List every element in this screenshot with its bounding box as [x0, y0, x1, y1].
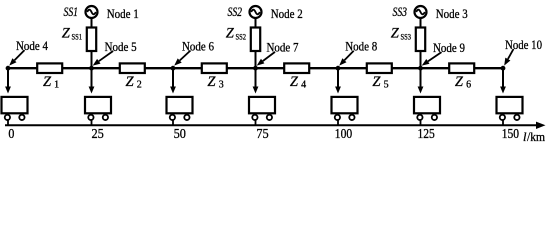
load (train) at node 5	[85, 97, 111, 120]
svg-text:4: 4	[301, 80, 306, 91]
svg-text:50: 50	[174, 126, 186, 141]
load (train) at node 10	[497, 97, 523, 120]
AC source SS3	[415, 6, 427, 18]
node 6 (junction dot)	[171, 66, 176, 71]
wire: source to impedance	[91, 18, 93, 29]
resistor Z4 (series impedance)	[284, 63, 309, 73]
AC source SS2	[250, 6, 262, 18]
resistor Z_SS3 (substation impedance)	[416, 28, 425, 52]
svg-text:3: 3	[219, 80, 224, 91]
svg-text:SS3: SS3	[393, 5, 408, 19]
arrow pointing to node 8	[339, 51, 354, 66]
wire: node 9 down to load	[420, 68, 422, 87]
value label Z2	[126, 74, 142, 91]
svg-text:Z: Z	[62, 25, 71, 41]
resistor Z6 (series impedance)	[449, 63, 474, 73]
svg-text:Z: Z	[126, 74, 135, 90]
svg-text:1: 1	[54, 80, 59, 91]
arrow: load current into load at node 9	[418, 87, 424, 94]
svg-text:Z: Z	[372, 74, 381, 90]
resistor Z1 (series impedance)	[37, 63, 62, 73]
svg-text:Node 9: Node 9	[433, 40, 465, 55]
svg-text:SS1: SS1	[72, 31, 83, 41]
node 8 (junction dot)	[336, 66, 341, 71]
axis tick 125 km	[420, 120, 422, 126]
value label Z1	[43, 74, 59, 91]
axis tick 75 km	[255, 120, 257, 126]
svg-text:Node 4: Node 4	[16, 38, 48, 53]
arrow pointing to node 9	[422, 52, 442, 66]
axis tick 100 km	[337, 120, 339, 126]
svg-text:25: 25	[92, 126, 104, 141]
node 10 (junction dot)	[501, 66, 506, 71]
arrow: load current into load at node 10	[500, 87, 506, 94]
svg-text:Node 8: Node 8	[345, 39, 377, 54]
svg-text:Z: Z	[391, 25, 400, 41]
wire: impedance to feeder node	[91, 51, 93, 68]
wire: node 8 down to load	[337, 68, 339, 87]
arrow: load current into load at node 6	[170, 87, 176, 94]
arrow pointing to node 10	[504, 49, 513, 66]
svg-text:Z: Z	[207, 74, 216, 90]
distance axis (l/km)	[5, 122, 546, 129]
axis tick 0 km	[7, 120, 9, 126]
svg-text:Z: Z	[290, 74, 299, 90]
axis tick 50 km	[172, 120, 174, 126]
svg-text:Z: Z	[43, 74, 52, 90]
arrow pointing to node 7	[257, 52, 275, 66]
value label Z5	[372, 74, 388, 91]
svg-text:Node 5: Node 5	[105, 39, 137, 54]
svg-text:Node 10: Node 10	[505, 37, 542, 52]
load (train) at node 9	[414, 97, 440, 120]
arrow pointing to node 4	[9, 50, 24, 66]
svg-text:SS2: SS2	[228, 5, 243, 19]
svg-text:75: 75	[256, 126, 268, 141]
wire: source to impedance	[255, 18, 257, 29]
svg-text:125: 125	[418, 126, 435, 141]
axis tick 25 km	[91, 120, 93, 126]
wire: main feeder line from node 4 to node 10	[8, 67, 503, 69]
svg-text:Node 6: Node 6	[182, 38, 214, 53]
wire: node 10 down to load	[502, 68, 504, 87]
arrow pointing to node 5	[93, 51, 113, 66]
arrow: load current into load at node 7	[253, 87, 259, 94]
load (train) at node 8	[332, 97, 358, 120]
wire: impedance to feeder node	[255, 51, 257, 68]
svg-text:SS3: SS3	[401, 31, 412, 41]
resistor Z_SS2 (substation impedance)	[251, 28, 260, 52]
resistor Z_SS1 (substation impedance)	[87, 28, 96, 52]
node 9 (junction dot)	[418, 66, 423, 71]
arrow: load current into load at node 8	[335, 87, 341, 94]
value label Z3	[207, 74, 223, 91]
value label Z_SS1	[62, 25, 82, 41]
load (train) at node 7	[249, 97, 275, 120]
svg-text:0: 0	[8, 126, 14, 141]
svg-text:100: 100	[335, 126, 352, 141]
svg-text:SS1: SS1	[64, 5, 79, 19]
arrow: load current into load at node 4	[5, 87, 11, 94]
wire: node 7 down to load	[255, 68, 257, 87]
svg-text:Z: Z	[226, 25, 235, 41]
svg-text:Node 3: Node 3	[436, 6, 468, 21]
svg-text:/km: /km	[527, 130, 545, 144]
wire: impedance to feeder node	[420, 51, 422, 68]
wire: node 4 down to load	[7, 68, 9, 87]
value label Z_SS3	[391, 25, 411, 41]
wire: node 6 down to load	[172, 68, 174, 87]
svg-text:Node 1: Node 1	[107, 6, 139, 21]
resistor Z5 (series impedance)	[367, 63, 392, 73]
arrow: load current into load at node 5	[89, 87, 95, 94]
value label Z6	[455, 74, 471, 91]
resistor Z2 (series impedance)	[120, 63, 145, 73]
load (train) at node 4	[2, 97, 28, 120]
svg-text:SS2: SS2	[236, 31, 247, 41]
axis tick 150 km	[502, 120, 504, 126]
svg-text:5: 5	[384, 80, 389, 91]
svg-text:Z: Z	[455, 74, 464, 90]
svg-text:6: 6	[466, 80, 471, 91]
value label Z4	[290, 74, 306, 91]
wire: source to impedance	[420, 18, 422, 29]
svg-text:Node 7: Node 7	[267, 40, 299, 55]
arrow pointing to node 6	[174, 51, 190, 66]
resistor Z3 (series impedance)	[202, 63, 227, 73]
load (train) at node 6	[167, 97, 193, 120]
node 7 (junction dot)	[253, 66, 258, 71]
AC source SS1	[86, 6, 98, 18]
svg-text:2: 2	[137, 80, 142, 91]
axis unit label l/km	[523, 130, 545, 144]
node 4 (junction dot)	[6, 66, 11, 71]
svg-text:150: 150	[502, 126, 519, 141]
svg-text:Node 2: Node 2	[271, 6, 303, 21]
node 5 (junction dot)	[89, 66, 94, 71]
value label Z_SS2	[226, 25, 246, 41]
wire: node 5 down to load	[91, 68, 93, 87]
